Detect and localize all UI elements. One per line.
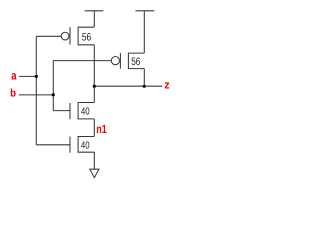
- wire vdd to M2 source: [143, 11, 145, 53]
- svg-text:a: a: [11, 69, 17, 83]
- nmos M3 gate plate: [69, 103, 71, 119]
- nmos M4 body: [78, 137, 94, 153]
- wire M1 drain to z: [93, 45, 95, 86]
- svg-text:n1: n1: [96, 122, 107, 136]
- vdd rail M2: [135, 10, 154, 12]
- wire M2 gate: [53, 60, 111, 62]
- svg-text:40: 40: [81, 106, 90, 117]
- svg-text:40: 40: [81, 140, 90, 151]
- wire M2 drain to z: [143, 69, 145, 87]
- wire net b vertical: [52, 61, 54, 111]
- svg-text:56: 56: [82, 32, 91, 44]
- wire vdd to M1 source: [93, 11, 95, 27]
- pmos M1 gate plate: [69, 27, 71, 44]
- pmos M2 gate plate: [119, 53, 121, 69]
- ground: [90, 169, 99, 177]
- svg-text:56: 56: [131, 56, 140, 68]
- junction z2: [143, 85, 146, 88]
- pmos M1 body: [78, 27, 94, 45]
- junction a: [35, 75, 38, 78]
- svg-text:z: z: [164, 80, 170, 92]
- pmos M2 body: [128, 53, 144, 69]
- vdd rail M1: [85, 10, 104, 12]
- wire M4 gate: [36, 144, 70, 146]
- junction b: [52, 93, 55, 96]
- wire M1 gate: [36, 35, 61, 37]
- wire input b: [19, 94, 54, 96]
- wire M3 gate: [53, 110, 70, 112]
- svg-text:b: b: [10, 88, 16, 100]
- wire z to M3 drain: [93, 86, 95, 102]
- wire node n1: [93, 119, 95, 137]
- wire net a vertical: [35, 36, 37, 145]
- pmos M2 gate bubble: [111, 57, 119, 65]
- wire M4 source to ground: [93, 152, 95, 169]
- nmos M4 gate plate: [69, 137, 71, 153]
- wire input a: [19, 75, 37, 77]
- pmos M1 gate bubble: [61, 32, 69, 40]
- wire output z: [94, 85, 162, 87]
- nmos M3 body: [78, 103, 94, 119]
- junction z1: [93, 85, 96, 88]
